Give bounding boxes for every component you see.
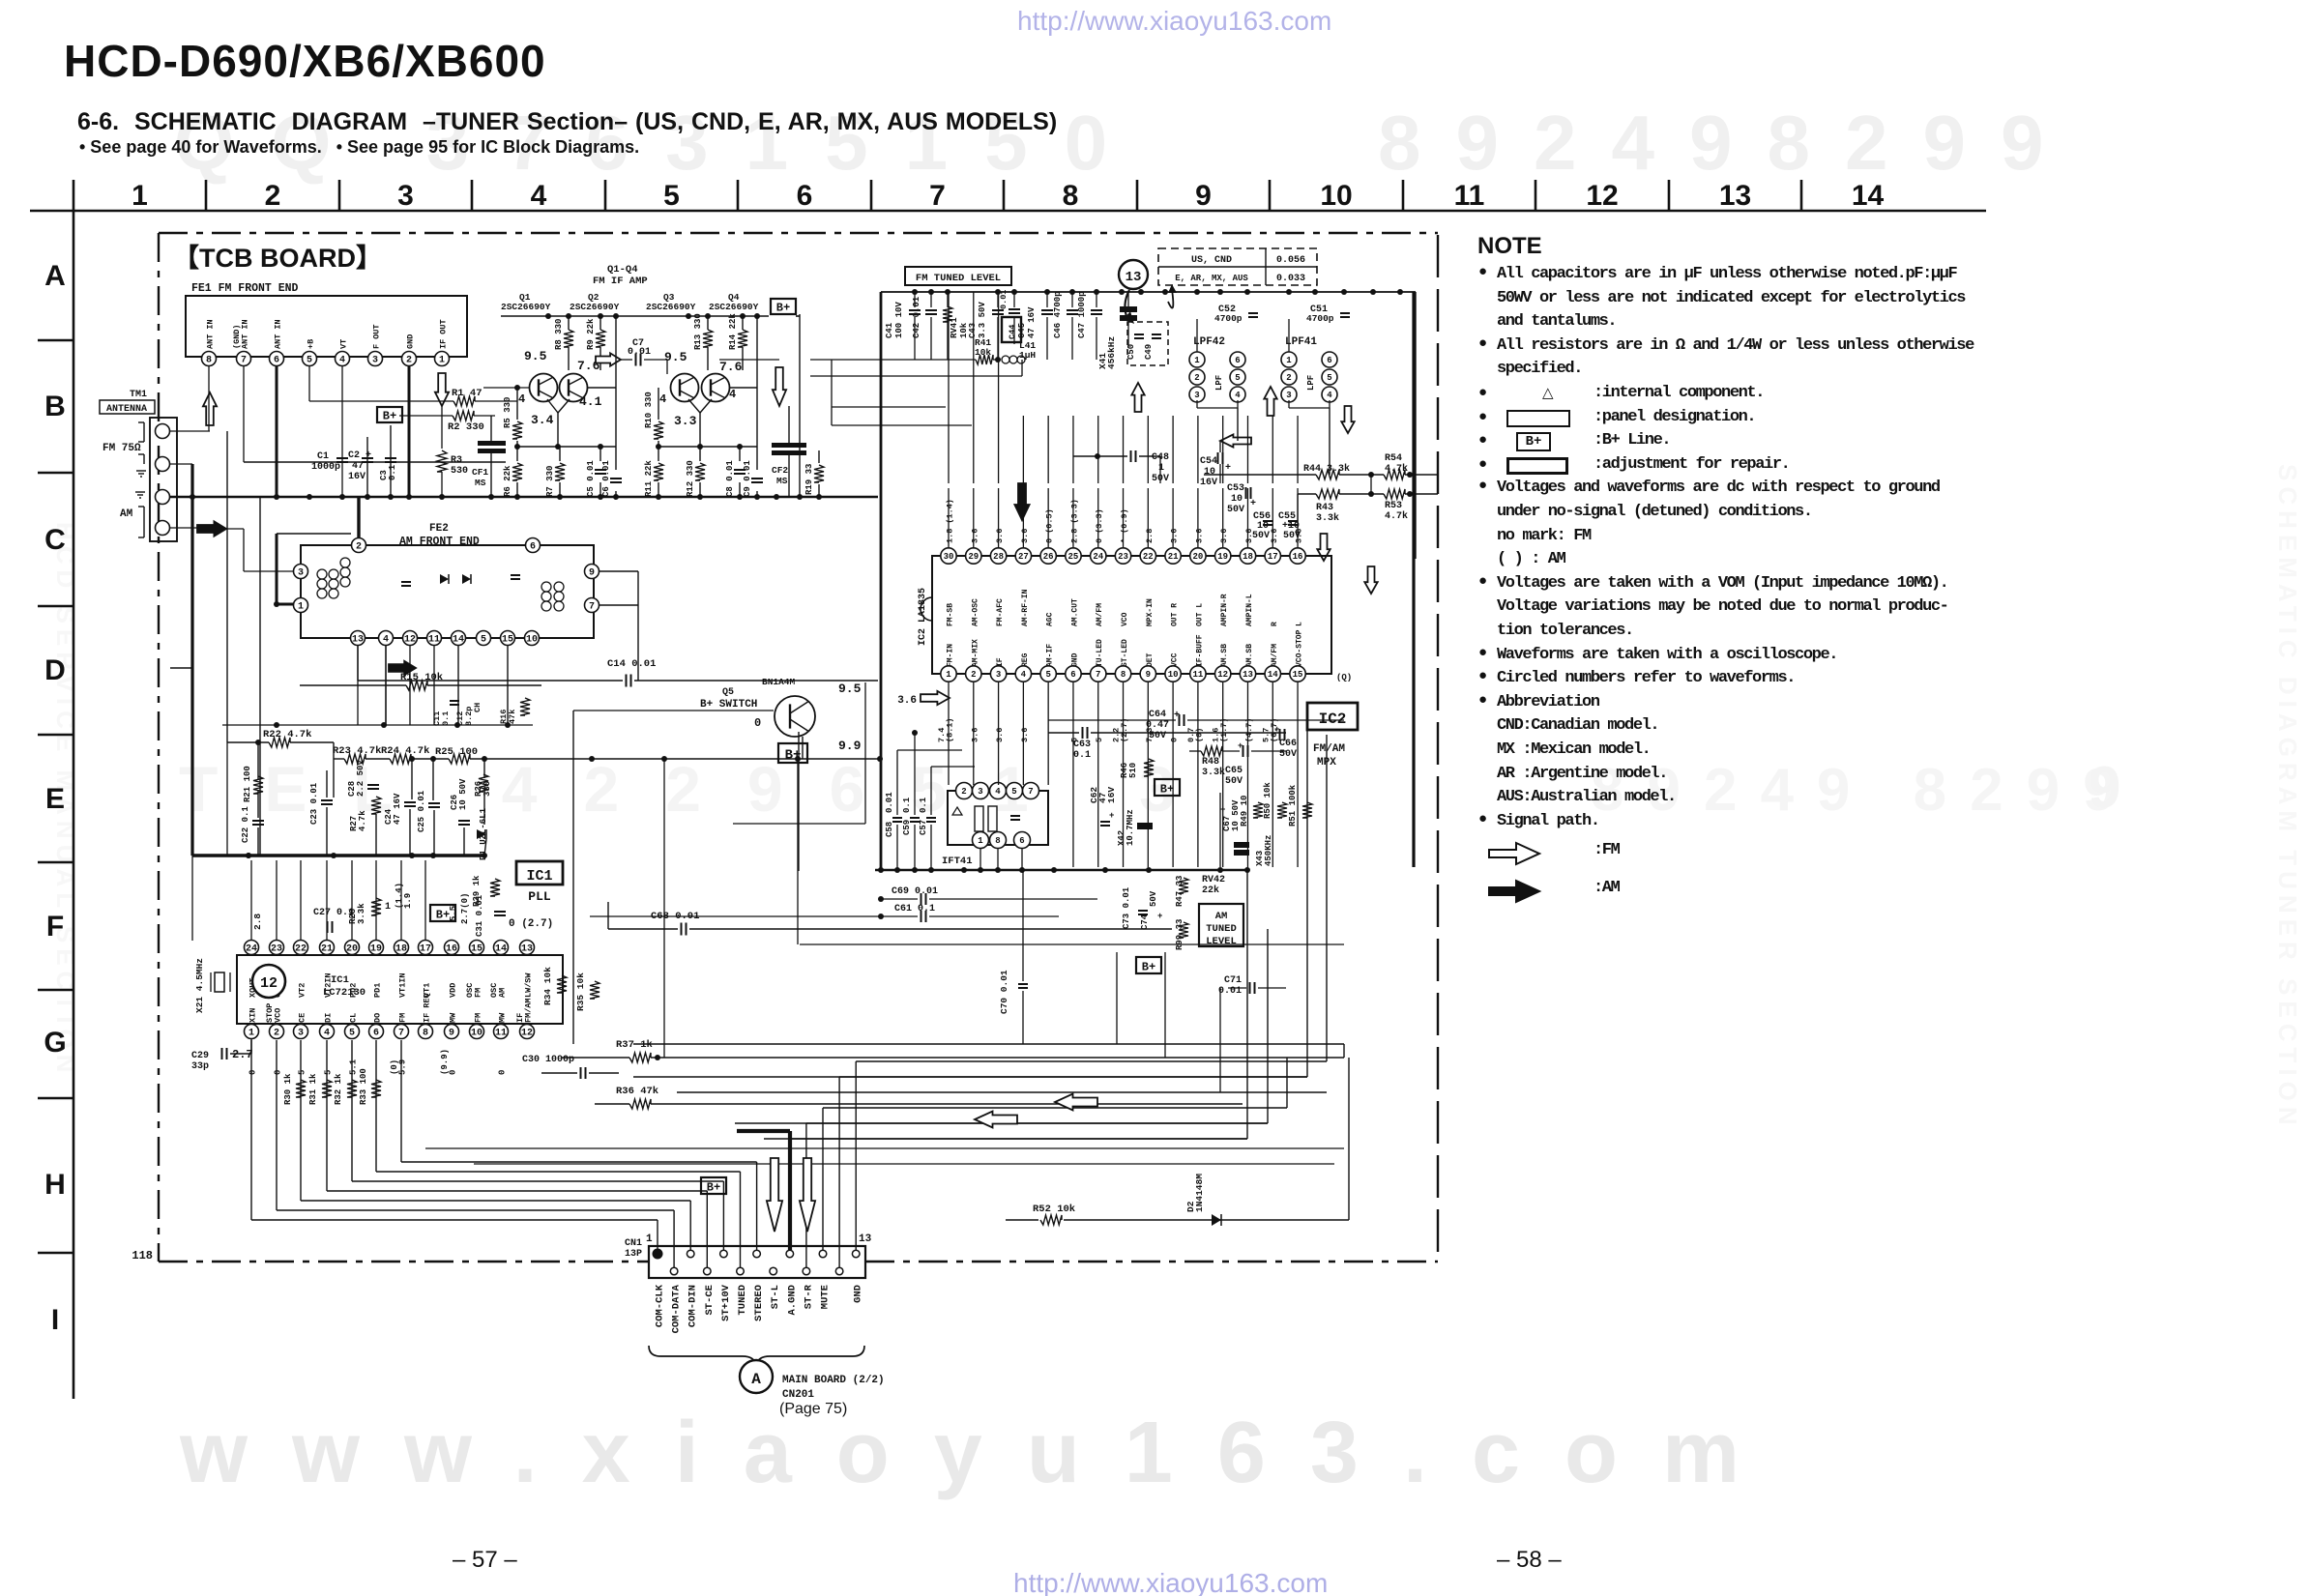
svg-text:7: 7 [1096,670,1100,680]
svg-text:4: 4 [1021,670,1027,680]
svg-text:GND: GND [406,334,416,349]
svg-text:4: 4 [995,787,1001,797]
svg-text:9: 9 [1195,180,1212,212]
svg-text:0.1: 0.1 [1073,750,1091,761]
svg-text:R14 22k: R14 22k [728,313,738,350]
svg-text:1N4148M: 1N4148M [1194,1174,1205,1212]
svg-text:5: 5 [298,1070,307,1075]
svg-text:4: 4 [659,392,666,406]
svg-text:+: + [1238,741,1243,751]
svg-text:3.3k: 3.3k [1316,512,1339,524]
svg-text:LEVEL: LEVEL [1206,936,1237,947]
svg-text:IFT41: IFT41 [942,856,973,867]
svg-text:CH: CH [473,703,482,712]
svg-text:FM IF AMP: FM IF AMP [593,276,648,287]
svg-text:AMPIN-R: AMPIN-R [1220,594,1229,626]
svg-text:3.6: 3.6 [1270,529,1279,543]
svg-text:C73 0.01: C73 0.01 [1122,886,1131,929]
svg-text:3.6: 3.6 [1219,529,1229,543]
svg-text:IC1: IC1 [331,974,349,986]
svg-text:13: 13 [859,1233,872,1245]
svg-text:3.6: 3.6 [995,529,1005,543]
svg-text:I: I [51,1304,59,1336]
svg-text:R13 330: R13 330 [693,313,703,350]
svg-text:3.3 50V: 3.3 50V [978,302,987,338]
svg-text:3: 3 [397,180,414,212]
svg-text:R3: R3 [451,455,462,466]
svg-text:12: 12 [521,1029,533,1039]
svg-text:US, CND: US, CND [1191,255,1232,266]
svg-text:C2 +: C2 + [348,450,371,461]
svg-text:AMPIN-L: AMPIN-L [1245,594,1254,626]
svg-text:* (0.9): * (0.9) [1120,508,1129,543]
svg-text:7.6: 7.6 [719,360,743,374]
svg-text:1: 1 [978,836,983,846]
svg-text:1.8 (1.4): 1.8 (1.4) [946,499,955,543]
svg-text:COM-CLK: COM-CLK [655,1284,666,1327]
svg-text:C69 0.01: C69 0.01 [892,886,938,897]
svg-text:6: 6 [373,1029,379,1039]
svg-text:R7 330: R7 330 [545,466,555,497]
svg-text:R5 330: R5 330 [503,397,512,428]
svg-text:(GND): (GND) [232,324,242,349]
svg-text:R43: R43 [1316,503,1333,513]
svg-text:C63: C63 [1073,740,1091,750]
svg-text:0.1: 0.1 [919,797,928,813]
svg-text:20: 20 [1192,552,1203,562]
svg-text:4: 4 [518,392,525,406]
svg-text:9: 9 [589,568,595,579]
svg-text:(Page 75): (Page 75) [779,1401,847,1417]
svg-text:R52 10k: R52 10k [1033,1204,1075,1215]
svg-text:R35 10k: R35 10k [575,972,586,1011]
svg-text:0: 0 [249,1070,258,1075]
svg-text:50V: 50V [1227,505,1244,515]
svg-text:2.8: 2.8 [252,914,263,930]
svg-text:(2.7): (2.7) [1120,717,1129,742]
svg-text:IF: IF [996,657,1005,667]
svg-text:A.GND: A.GND [786,1285,798,1316]
svg-text:12: 12 [1586,180,1618,212]
svg-text:DET: DET [1146,653,1155,667]
svg-text:530: 530 [451,466,468,477]
svg-text:FM/AM: FM/AM [1313,743,1345,755]
svg-text:B+: B+ [707,1180,720,1194]
svg-text:AM/FM: AM/FM [1096,603,1104,626]
svg-text:ST-R: ST-R [803,1284,814,1309]
svg-text:ANT IN: ANT IN [274,319,283,349]
svg-text:R1 47: R1 47 [452,388,482,399]
svg-text:2: 2 [274,1029,279,1039]
svg-text:C47 1000p: C47 1000p [1077,291,1087,338]
svg-text:3.6: 3.6 [1170,529,1180,543]
svg-text:VCO: VCO [1121,612,1129,626]
svg-text:VCO-STOP: VCO-STOP [1296,629,1304,667]
svg-text:27: 27 [1018,552,1029,562]
svg-text:4700p: 4700p [1214,313,1243,324]
svg-text:10: 10 [1320,180,1352,212]
svg-text:FE2: FE2 [429,523,449,535]
svg-text:6: 6 [1070,670,1075,680]
svg-text:ST+10V: ST+10V [720,1284,732,1321]
svg-text:6: 6 [1235,356,1240,365]
svg-text:C5 0.01: C5 0.01 [586,460,596,497]
svg-text:AM/FM: AM/FM [1271,644,1279,667]
svg-text:E: E [45,783,65,815]
svg-text:2.8 (3.3): 2.8 (3.3) [1069,499,1079,543]
svg-text:C65: C65 [1225,766,1243,776]
svg-text:C43: C43 [968,323,978,338]
svg-text:C25 0.01: C25 0.01 [417,790,426,832]
svg-text:C53: C53 [1227,483,1244,494]
svg-text:1: 1 [946,670,951,680]
svg-text:3.6: 3.6 [1194,529,1204,543]
svg-text:25: 25 [1068,552,1079,562]
svg-text:5: 5 [307,356,312,366]
svg-text:15: 15 [1293,670,1303,680]
svg-text:9: 9 [1146,670,1151,680]
svg-text:22: 22 [1143,552,1154,562]
svg-text:C70 0.01: C70 0.01 [999,970,1009,1014]
svg-text:2.2 50V: 2.2 50V [356,760,366,797]
svg-text:OSC: OSC [465,983,475,998]
svg-text:13P: 13P [625,1249,642,1260]
svg-text:4.1: 4.1 [579,394,602,409]
svg-text:C27 0.1: C27 0.1 [313,908,354,918]
svg-text:14: 14 [1852,180,1885,212]
svg-text:VCO: VCO [274,1008,283,1023]
svg-text:0: 0 [498,1070,508,1075]
svg-text:OSC: OSC [489,983,499,998]
svg-text:28: 28 [993,552,1004,562]
svg-text:18: 18 [1243,552,1253,562]
svg-text:9.5: 9.5 [838,682,862,696]
svg-text:12: 12 [1217,670,1228,680]
svg-text:3.6: 3.6 [1244,529,1254,543]
svg-text:3: 3 [996,670,1001,680]
svg-text:FM-SB: FM-SB [947,603,955,626]
svg-text:MUTE: MUTE [820,1285,832,1309]
svg-text:3: 3 [1194,391,1199,400]
svg-text:5.9: 5.9 [398,1059,408,1075]
svg-text:AM FRONT END: AM FRONT END [399,536,480,548]
svg-text:5: 5 [663,180,680,212]
svg-text:ST-CE: ST-CE [704,1285,716,1316]
svg-text:4: 4 [1327,391,1332,400]
svg-text:7: 7 [241,356,247,366]
svg-text:IF OUT: IF OUT [439,319,449,349]
svg-text:ST-LED: ST-LED [1121,639,1129,667]
svg-text:MAIN BOARD (2/2): MAIN BOARD (2/2) [782,1375,885,1386]
svg-text:IF: IF [515,1013,525,1023]
svg-text:AM.CUT: AM.CUT [1070,598,1079,626]
svg-text:CF1: CF1 [472,467,488,478]
svg-text:16: 16 [1293,552,1303,562]
svg-text:B+: B+ [1142,960,1155,973]
svg-text:5: 5 [1327,373,1331,383]
svg-text:FM 75Ω: FM 75Ω [102,443,141,454]
svg-text:IF-BUFF: IF-BUFF [1195,634,1204,667]
svg-text:+: + [1157,912,1162,921]
svg-text:6: 6 [1019,836,1024,846]
svg-text:9: 9 [449,1029,454,1039]
svg-text:ST-L: ST-L [770,1285,781,1309]
svg-text:CN1: CN1 [625,1238,642,1249]
svg-text:AGC: AGC [1046,612,1055,626]
svg-text:R48: R48 [1202,757,1219,768]
svg-text:IC1: IC1 [526,868,552,885]
svg-text:OUT R: OUT R [1171,603,1180,626]
svg-text:A: A [44,260,66,292]
svg-text:13: 13 [352,635,364,646]
svg-text:C41: C41 [885,322,894,338]
svg-text:12: 12 [404,635,416,646]
svg-text:VT: VT [339,339,349,349]
svg-text:B+: B+ [776,301,790,314]
svg-text:450KHz: 450KHz [1264,835,1273,866]
svg-text:9.5: 9.5 [524,349,547,363]
svg-text:6: 6 [530,542,536,553]
svg-text:C44: C44 [1008,325,1017,339]
svg-text:4: 4 [339,356,345,366]
svg-text:5.5: 5.5 [449,906,458,921]
svg-text:+: + [1225,463,1231,474]
svg-text:C54: C54 [1200,456,1217,467]
svg-text:17: 17 [1268,552,1278,562]
svg-text:C22 0.1: C22 0.1 [241,806,250,843]
svg-text:10.7MHz: 10.7MHz [1126,809,1135,846]
svg-text:COM-DIN: COM-DIN [687,1285,699,1327]
svg-text:2: 2 [971,670,976,680]
svg-text:8: 8 [995,836,1000,846]
svg-text:LPF42: LPF42 [1193,336,1225,348]
svg-text:R11 22k: R11 22k [644,460,654,497]
svg-text:16: 16 [446,944,457,955]
svg-text:3: 3 [372,356,378,366]
svg-text:5.1: 5.1 [349,1059,359,1075]
svg-text:C23 0.01: C23 0.01 [309,782,319,825]
svg-text:50V: 50V [1279,749,1297,760]
svg-text:C46 4700p: C46 4700p [1053,291,1063,338]
svg-text:L: L [1296,622,1304,626]
svg-text:3.6: 3.6 [1020,529,1030,543]
svg-text:LPF: LPF [1306,375,1316,391]
svg-text:R2 330: R2 330 [448,421,484,433]
svg-text:CL: CL [349,1013,359,1023]
svg-text:50V: 50V [1252,531,1270,541]
svg-text:3: 3 [298,568,304,579]
svg-text:14: 14 [453,635,464,646]
svg-text:1: 1 [1194,356,1200,365]
svg-text:3.6: 3.6 [970,728,980,742]
svg-text:2.2: 2.2 [1112,728,1122,742]
svg-text:4: 4 [1235,391,1241,400]
svg-text:510: 510 [1128,763,1138,778]
svg-text:0.01: 0.01 [628,347,651,358]
svg-text:8: 8 [206,356,212,366]
svg-text:3.4: 3.4 [531,413,554,427]
svg-text:(0): (0) [390,1059,399,1075]
svg-text:2SC26690Y: 2SC26690Y [709,302,759,312]
svg-text:R23 4.7k: R23 4.7k [333,745,381,757]
svg-text:2.8: 2.8 [1145,529,1155,543]
svg-text:R22 4.7k: R22 4.7k [263,729,311,740]
svg-text:24: 24 [1093,552,1103,562]
svg-text:7.4: 7.4 [937,728,947,742]
svg-text:5: 5 [481,635,486,646]
svg-text:C14 0.01: C14 0.01 [607,658,656,670]
svg-text:DO: DO [373,1013,383,1023]
svg-text:6: 6 [797,180,813,212]
svg-text:0.47: 0.47 [1146,720,1169,731]
svg-text:0.1: 0.1 [902,797,912,813]
svg-text:0 (2.7): 0 (2.7) [509,918,553,930]
svg-text:3.3k: 3.3k [357,903,366,924]
svg-text:5.7: 5.7 [1261,728,1271,742]
svg-text:MS: MS [475,478,486,488]
svg-text:11: 11 [1454,180,1485,212]
svg-text:0: 0 [274,1070,283,1075]
svg-text:0.01: 0.01 [999,290,1009,309]
svg-text:26: 26 [1043,552,1054,562]
svg-text:OUT L: OUT L [1195,603,1204,626]
svg-text:C8 0.01: C8 0.01 [725,460,735,497]
svg-text:6: 6 [274,356,279,366]
svg-text:33p: 33p [191,1061,209,1072]
svg-text:10: 10 [471,1029,482,1039]
svg-text:1: 1 [385,902,391,913]
svg-text:2.7: 2.7 [232,1048,253,1061]
svg-text:VT1IN: VT1IN [398,972,408,998]
svg-text:FM/AM: FM/AM [524,998,534,1023]
svg-text:2SC26690Y: 2SC26690Y [570,302,620,312]
svg-text:4.7k: 4.7k [358,810,367,831]
svg-text:MPX-IN: MPX-IN [1146,598,1155,626]
svg-text:14: 14 [1268,670,1278,680]
svg-text:5: 5 [1011,787,1016,797]
svg-text:R10 330: R10 330 [644,392,654,428]
svg-text:H: H [44,1169,66,1201]
svg-text:XIN: XIN [249,1008,258,1023]
svg-text:+B: +B [307,339,316,349]
svg-text:10 50V: 10 50V [458,778,468,810]
svg-text:B: B [44,391,66,422]
svg-text:C9 0.01: C9 0.01 [743,460,752,497]
svg-text:7: 7 [1028,787,1033,797]
svg-text:FM TUNED LEVEL: FM TUNED LEVEL [916,273,1001,284]
svg-text:1: 1 [646,1233,653,1245]
svg-text:+: + [1109,811,1114,821]
svg-text:IC2: IC2 [1319,711,1347,728]
svg-text:(4.7): (4.7) [1244,717,1254,742]
svg-text:(8.1): (8.1) [946,717,955,742]
svg-text:C66: C66 [1279,739,1297,749]
svg-text:13: 13 [1243,670,1253,680]
svg-text:C64: C64 [1149,710,1166,720]
svg-text:10: 10 [1204,467,1215,478]
svg-text:0.01: 0.01 [885,792,894,813]
svg-text:COM-DATA: COM-DATA [671,1284,683,1333]
svg-text:RV42: RV42 [1202,875,1225,885]
svg-text:0 (0.5): 0 (0.5) [1045,508,1055,543]
svg-text:0.056: 0.056 [1276,255,1305,266]
svg-text:7: 7 [929,180,946,212]
svg-text:R9 22k: R9 22k [586,318,596,350]
svg-text:20: 20 [346,944,358,955]
svg-text:C50: C50 [1126,344,1136,360]
svg-text:F OUT: F OUT [372,324,382,349]
svg-text:47k: 47k [508,710,517,724]
svg-text:FM-IN: FM-IN [947,644,955,667]
svg-text:50V: 50V [1225,776,1243,787]
svg-text:PLL: PLL [528,889,551,904]
svg-text:TU-LED: TU-LED [1096,639,1104,667]
svg-text:24: 24 [246,944,257,955]
svg-text:TUNED: TUNED [1206,923,1237,935]
svg-text:1: 1 [439,356,445,366]
svg-text:AM.SB: AM.SB [1245,644,1254,667]
svg-text:3.6: 3.6 [1295,529,1304,543]
svg-text:5: 5 [1045,670,1050,680]
svg-text:LPF: LPF [1214,375,1224,391]
svg-text:MW: MW [449,1012,458,1023]
svg-text:5: 5 [324,1070,334,1075]
svg-text:R25 100: R25 100 [435,746,478,758]
svg-text:10: 10 [1168,670,1179,680]
svg-text:47 16V: 47 16V [1027,306,1037,338]
svg-text:STEREO: STEREO [753,1285,765,1321]
svg-text:4: 4 [729,388,736,401]
svg-text:29: 29 [968,552,979,562]
svg-text:3.3: 3.3 [674,414,697,428]
svg-text:C6 0.01: C6 0.01 [601,460,611,497]
svg-text:ANTENNA: ANTENNA [106,404,147,415]
svg-text:R33 100: R33 100 [359,1068,368,1105]
svg-text:23: 23 [271,944,282,955]
svg-text:C: C [44,524,66,556]
svg-text:1: 1 [249,1029,254,1039]
svg-text:0: 0 [449,1070,458,1075]
svg-text:STOP: STOP [265,1003,275,1023]
svg-text:456kHz: 456kHz [1106,336,1117,369]
svg-text:R12 330: R12 330 [686,460,695,497]
svg-text:3: 3 [978,787,982,797]
svg-text:1: 1 [1158,463,1164,474]
svg-text:C42 0.01: C42 0.01 [912,296,921,338]
svg-text:11: 11 [428,635,440,646]
svg-text:0.033: 0.033 [1276,274,1305,284]
svg-text:(9.9): (9.9) [440,1049,450,1075]
svg-text:CE: CE [298,1013,307,1023]
svg-text:3: 3 [1286,391,1291,400]
svg-text:FM: FM [474,988,483,998]
svg-text:AM.SB: AM.SB [1220,644,1229,667]
svg-text:50V: 50V [1149,731,1166,741]
svg-text:+: + [1250,499,1256,509]
svg-text:R32 1k: R32 1k [334,1073,343,1105]
svg-text:MS: MS [776,476,788,486]
svg-text:3.6: 3.6 [1020,728,1030,742]
svg-text:MW: MW [498,1012,508,1023]
svg-text:12: 12 [260,975,278,992]
svg-text:R30 1k: R30 1k [283,1073,293,1105]
svg-text:AM: AM [1215,911,1228,922]
svg-text:LPF41: LPF41 [1285,336,1317,348]
svg-text:14: 14 [495,944,507,955]
svg-text:FM: FM [398,1013,408,1023]
svg-text:Q1-Q4: Q1-Q4 [607,264,638,276]
svg-text:16V: 16V [1200,478,1217,488]
